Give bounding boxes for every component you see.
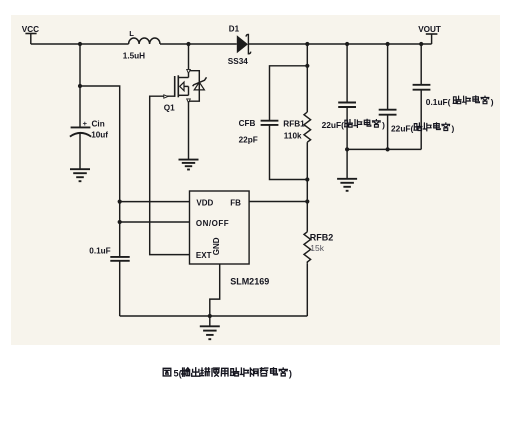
ground under Cin	[70, 169, 90, 181]
resistor RFB1 110k	[306, 66, 308, 112]
node junction C1 bottom	[345, 147, 349, 151]
svg-text:RFB1: RFB1	[283, 119, 305, 128]
svg-text:110k: 110k	[284, 131, 302, 140]
node junction CFB bottom	[305, 177, 309, 181]
capacitor C3 0.1uF wire	[420, 44, 422, 85]
Q1 drain pin marker	[187, 69, 191, 73]
wire Cin to ground	[79, 133, 81, 169]
svg-text:SS34: SS34	[228, 57, 248, 66]
wire inductor to diode anode	[160, 43, 237, 45]
svg-text:VOUT: VOUT	[418, 25, 441, 34]
capacitor C1 22uF	[338, 103, 356, 108]
capacitor C2 22uF	[379, 110, 397, 115]
svg-text:): )	[289, 368, 292, 378]
svg-text:22uF(: 22uF(	[322, 120, 345, 130]
wire ON/OFF pin to left rail	[120, 221, 190, 223]
node junction Cin/VDD branch	[78, 84, 82, 88]
svg-text:0.1uF(: 0.1uF(	[426, 97, 451, 107]
svg-text:22pF: 22pF	[239, 136, 258, 145]
capacitor C1 22uF wire	[346, 44, 348, 102]
wire jog to VDD rail	[80, 86, 120, 256]
svg-text:D1: D1	[229, 24, 240, 33]
node junction FB	[305, 199, 309, 203]
svg-text:+: +	[83, 119, 88, 128]
wire diode cathode to VOUT	[249, 43, 432, 45]
transistor Q1 NMOS	[175, 75, 189, 97]
wire Q1 source to ground	[188, 101, 190, 159]
svg-text:10uf: 10uf	[91, 131, 108, 140]
wire gate of Q1 to EXT pin	[150, 96, 190, 254]
wire IC GND pin to rail	[210, 264, 220, 316]
node junction cap C1 top	[345, 42, 349, 46]
wire C1 rail to ground	[346, 149, 348, 178]
svg-text:): )	[452, 124, 455, 134]
capacitor C3 0.1uF	[413, 85, 431, 90]
schematic background sheet	[11, 15, 500, 345]
Q1 body diode	[189, 71, 207, 102]
svg-text:): )	[491, 97, 494, 107]
svg-text:EXT: EXT	[196, 251, 212, 260]
op-amp/regulator IC U1 SLM2169 box	[190, 191, 250, 264]
output cap ground rail	[347, 148, 421, 150]
svg-text:15k: 15k	[310, 243, 324, 253]
capacitor CFB 22pF	[261, 121, 279, 125]
Q1 source pin marker	[187, 99, 191, 103]
node junction C2 bottom	[386, 147, 390, 151]
caption figure 5	[163, 368, 171, 376]
wire VCC branch down to Cin	[79, 44, 81, 127]
capacitor 0.1uF (left bypass)	[110, 257, 129, 261]
node junction CFB jog	[305, 64, 309, 68]
node junction cap C2 top	[386, 42, 390, 46]
node junction ON/OFF rail	[118, 220, 122, 224]
diode D1 SS34 (Schottky)	[237, 34, 251, 53]
capacitor C2 22uF wire	[387, 44, 389, 110]
wire 0.1uF to bottom rail	[119, 261, 121, 316]
node junction 0.1uF cap top	[419, 42, 423, 46]
inductor L	[129, 38, 160, 44]
svg-text:0.1uF: 0.1uF	[89, 247, 110, 256]
node junction bottom rail / IC gnd	[208, 314, 212, 318]
svg-text:FB: FB	[230, 198, 241, 207]
gate pin marker	[164, 95, 168, 98]
svg-text:RFB2: RFB2	[310, 232, 334, 242]
wire RFB1 bottom to FB node	[306, 180, 308, 202]
node junction VCC/Cin branch	[78, 42, 82, 46]
svg-text:Q1: Q1	[164, 104, 175, 113]
wire rail to ground stem	[209, 316, 211, 326]
wire top node down to RFB1	[306, 44, 308, 66]
wire jog to CFB	[270, 66, 308, 120]
resistor RFB2 15k	[306, 202, 308, 232]
wire FB pin to divider	[249, 201, 307, 203]
VOUT terminal	[426, 34, 438, 44]
svg-text:GND: GND	[212, 237, 221, 255]
svg-text:Cin: Cin	[92, 119, 105, 128]
svg-text:ON/OFF: ON/OFF	[196, 219, 229, 228]
svg-text:SLM2169: SLM2169	[230, 276, 269, 286]
ground under output caps	[337, 179, 357, 191]
svg-text:VCC: VCC	[22, 25, 39, 34]
ground under Q1	[179, 160, 199, 170]
svg-text:): )	[382, 120, 385, 130]
wire CFB bottom jog	[270, 125, 308, 180]
ground bottom rail	[200, 326, 220, 339]
svg-text:1.5uH: 1.5uH	[123, 51, 145, 60]
svg-text:L: L	[129, 29, 134, 38]
node junction VDD rail	[118, 200, 122, 204]
wire VDD pin to left rail	[120, 201, 190, 203]
node junction inductor/drain/diode	[186, 42, 190, 46]
wire drain from node to Q1	[188, 44, 190, 78]
bottom ground rail	[120, 315, 308, 317]
svg-text:CFB: CFB	[239, 119, 256, 128]
node junction RFB1 top	[305, 42, 309, 46]
svg-text:VDD: VDD	[196, 198, 213, 207]
capacitor Cin 10uf (polarized)	[70, 127, 91, 136]
wire VCC to inductor	[31, 43, 129, 45]
VCC terminal	[25, 34, 36, 45]
svg-text:22uF(: 22uF(	[391, 124, 414, 134]
